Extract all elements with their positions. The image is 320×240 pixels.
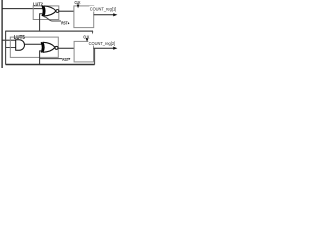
- wire: D input of FF2: [58, 47, 74, 49]
- svg-text:RST: RST: [61, 21, 68, 26]
- wire: left feedback vertical: [5, 31, 7, 65]
- LUT5 box: [10, 37, 58, 57]
- pin arrow into FF2 R: [69, 58, 71, 60]
- wire: LUT5 XOR lower input jog: [40, 51, 43, 65]
- wire: top horizontal into LUT2 input I0: [2, 8, 43, 10]
- pin arrow into FF1 R: [68, 22, 70, 24]
- svg-text:RST: RST: [62, 57, 69, 62]
- flip-flop FF2 (COUNT_reg[2]) box: [74, 41, 93, 62]
- wire: horizontal into LUT5 AND upper input: [2, 39, 16, 41]
- op: XOR gate inside LUT5: [41, 42, 55, 52]
- svg-text:COUNT_reg[1]: COUNT_reg[1]: [90, 7, 117, 13]
- pin: LUT2 output bubble: [56, 10, 59, 13]
- svg-text:LUT2: LUT2: [33, 1, 43, 6]
- flip-flop FF1 (COUNT_reg[1]) box: [74, 6, 94, 28]
- wire: Q2 feedback down: [94, 48, 96, 64]
- wire: RST net to FF2 R pin: [40, 58, 62, 60]
- wire: LUT2 XOR lower input jog: [40, 14, 43, 31]
- wire: feedback net horizontal (Q1): [6, 30, 93, 32]
- svg-text:CLK: CLK: [75, 0, 81, 5]
- pin arrow: CLK into FF1 top: [77, 5, 80, 9]
- wire: D input of FF1: [59, 10, 74, 12]
- svg-text:COUNT_reg[2]: COUNT_reg[2]: [89, 41, 116, 47]
- wire: into LUT5 AND lower input: [6, 47, 16, 49]
- wire: RST net S-bend to FF1 R pin: [43, 16, 61, 21]
- output port arrow COUNT_reg[1]: [113, 13, 117, 16]
- label COUNT_reg[2]: [88, 40, 115, 47]
- LUT2 box: [33, 6, 59, 20]
- wire: left vertical net (COUNT_reg[0]): [1, 0, 3, 68]
- op: XOR gate U1 inside LUT2: [42, 6, 56, 16]
- wire: AND output to XOR upper input: [25, 43, 43, 45]
- wire: bottom horizontal net (Q2 feedback): [6, 64, 95, 66]
- label COUNT_reg[1]: [89, 6, 116, 13]
- wire: Q2 output: [94, 47, 116, 49]
- wire: Q1 output: [94, 14, 115, 16]
- output port arrow COUNT_reg[2]: [113, 47, 117, 50]
- pin: LUT5 output bubble: [55, 46, 58, 49]
- op: AND gate inside LUT5: [16, 40, 25, 51]
- pin arrow: CLK into FF2 top: [86, 39, 89, 42]
- wire: feedback end hook down: [92, 32, 94, 35]
